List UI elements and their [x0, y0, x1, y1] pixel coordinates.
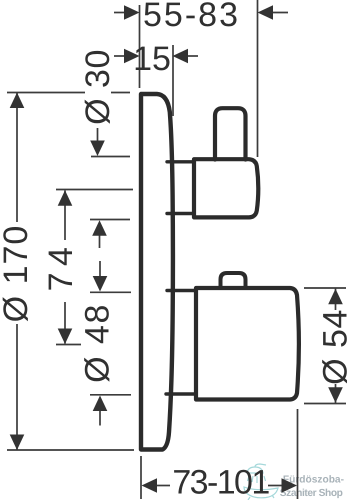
dia54 bottom tick y403.5 [304, 403, 346, 405]
upper knob body [194, 159, 258, 217]
upper knob stem [215, 108, 246, 159]
dia48 lower outside arrow tail [99, 411, 101, 426]
arrowhead dia48 lower (points up at y395.5) [93, 396, 108, 412]
arrowhead dim74 bottom (points down at y344) [58, 329, 73, 345]
dim74 bottom tick y344.5 [56, 344, 81, 346]
dim 55-83 line right [271, 12, 288, 14]
arrowhead dia48 upper (points down at y291.5) [93, 276, 108, 292]
dim 55-83 line left [114, 12, 127, 14]
arrowhead 15 right (points left at x172) [173, 49, 189, 64]
arrowhead dia54 bottom (points down at y402.7) [328, 387, 343, 403]
lower neck line top [167, 289, 194, 292]
arrowhead dia30 lower outside (points up at y220) [92, 220, 107, 236]
extension line x141 bottom (plate back) [140, 456, 142, 499]
dia54 top tick y288 [304, 287, 346, 289]
extension line x257.5 (upper knob front) [257, 0, 259, 157]
top extension line y92.5 (plate top) [7, 92, 130, 94]
svg-text:Ø 48: Ø 48 [79, 303, 117, 383]
dia30 lower outside arrow tail [99, 234, 101, 248]
extension line x173.5 (plate front) [172, 45, 174, 116]
svg-text:55-83: 55-83 [143, 0, 240, 34]
dia30 tick y156.5 [91, 156, 130, 158]
lower neck line bottom [166, 392, 194, 395]
dim 15 line left [114, 55, 127, 57]
arrowhead dia30 (points down at y156.5) [90, 141, 105, 157]
dia170 dimension line x17 [16, 93, 18, 450]
dia48 upper outside arrow tail [99, 261, 101, 276]
arrowhead 15 left (points right at x140) [124, 49, 140, 64]
extension line x297.5 bottom (handle front) [297, 409, 299, 499]
arrowhead 73-101 right (points right at x297) [282, 478, 298, 493]
dia30 arrow tail down [97, 128, 99, 142]
dia54 dimension line x335.5 [335, 288, 337, 404]
lower handle button [221, 273, 246, 286]
dim 15 line right [185, 55, 198, 57]
escutcheon plate (side view) [141, 94, 173, 450]
arrowhead 55-83 right (points left at x257.5) [258, 5, 274, 20]
dim74 line x65 [64, 191, 66, 344]
svg-text:15: 15 [133, 40, 171, 78]
arrowhead dim74 top (points up at y190) [58, 190, 73, 206]
shop watermark logo icon (bathtub wireframe) [244, 464, 278, 500]
dim 73-101 line left [157, 485, 170, 487]
svg-text:Ø 170: Ø 170 [0, 225, 35, 323]
upper neck line bottom [167, 212, 192, 215]
upper neck line top [167, 160, 192, 163]
dia48 top tick y292.3 [90, 291, 131, 293]
svg-text:73-101: 73-101 [172, 464, 269, 500]
lower handle body [196, 288, 299, 400]
svg-text:Ø 30: Ø 30 [79, 49, 117, 125]
dia170 bottom tick y450 [7, 449, 134, 451]
dia30/dia48 shared tick y219.5 [90, 219, 130, 221]
dim74 top tick y189.5 [56, 189, 133, 191]
arrowhead dia170 top (points up at y92.5) [10, 93, 25, 109]
arrowhead 73-101 left (points left at x141.5) [142, 478, 158, 493]
arrowhead 55-83 left (points right at x140) [124, 5, 140, 20]
dia48 bottom tick y394.8 [90, 394, 131, 396]
extension line x140 (wall/plate back, top) [139, 5, 141, 88]
arrowhead dia170 bottom (points down at y450) [10, 435, 25, 451]
arrowhead dia54 top (points up at y288.8) [328, 289, 343, 305]
svg-text:Ø 54: Ø 54 [317, 309, 347, 385]
dim 73-101 line right [268, 485, 282, 487]
svg-text:Szaniter Shop: Szaniter Shop [280, 488, 343, 499]
svg-text:74: 74 [42, 241, 80, 292]
